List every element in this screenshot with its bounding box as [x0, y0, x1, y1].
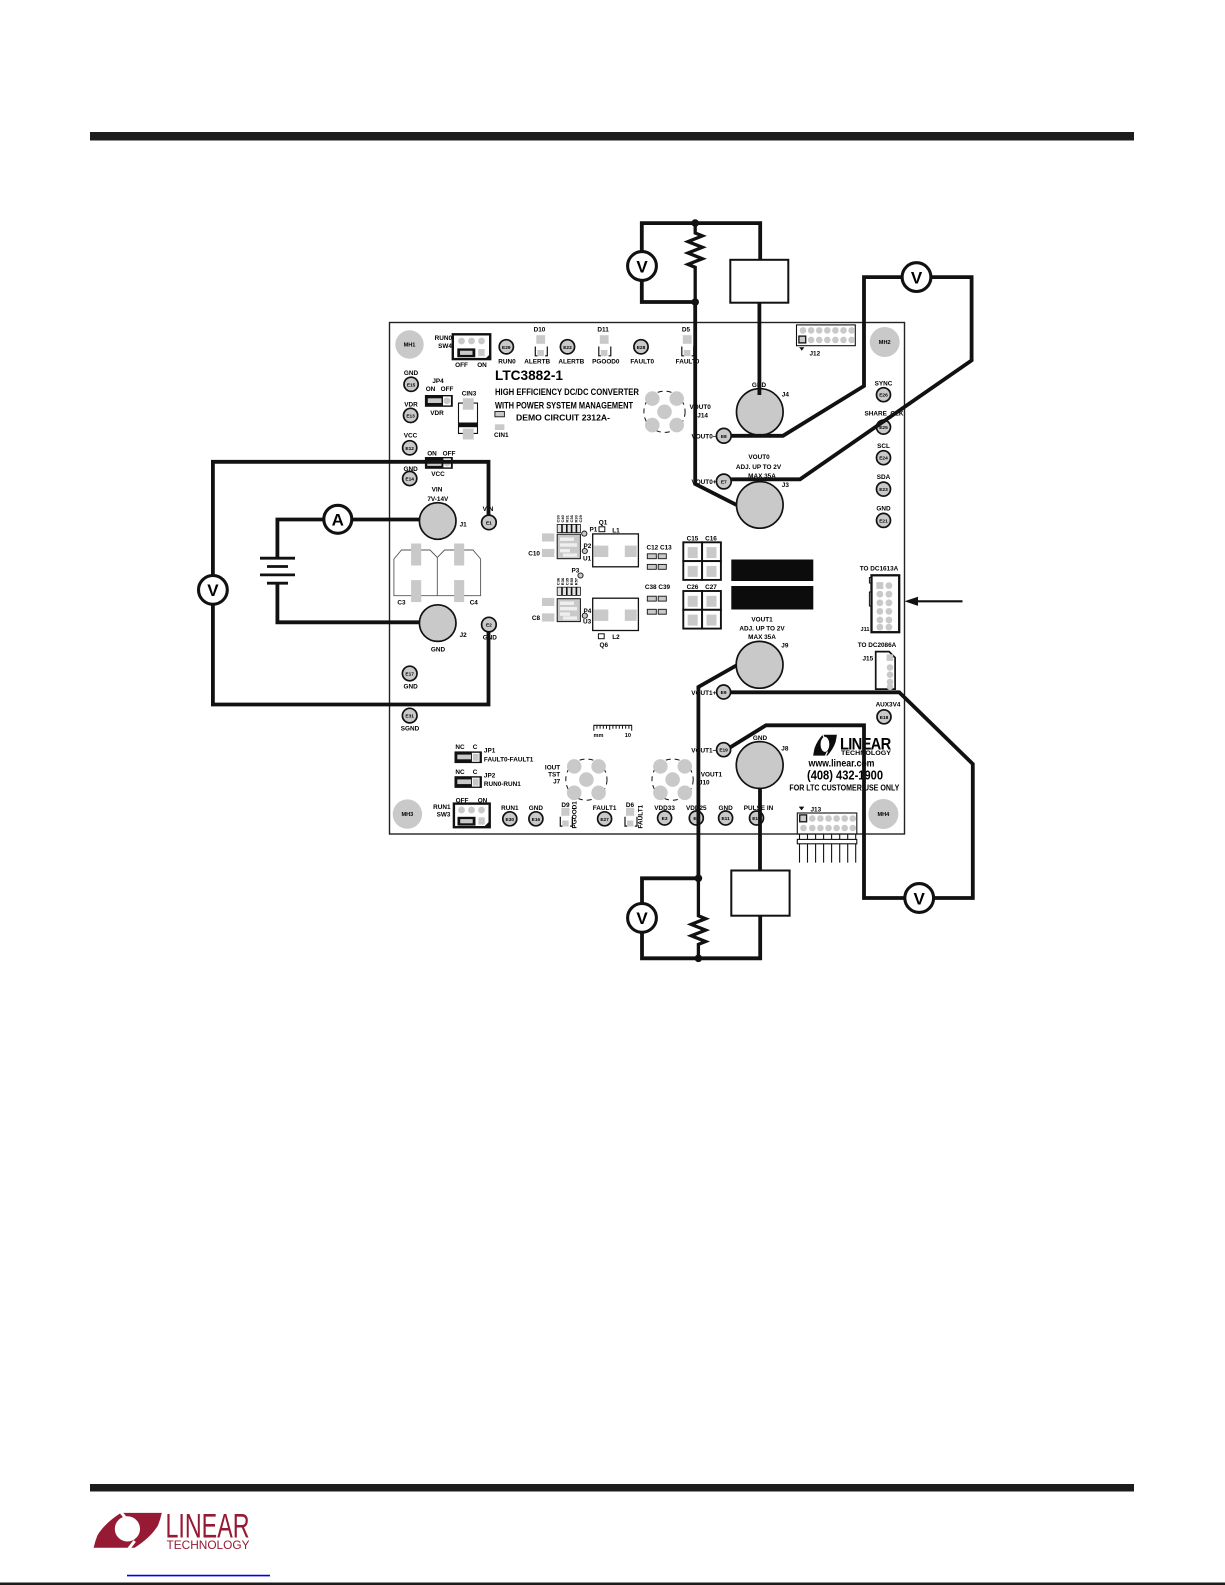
- svg-text:L1: L1: [612, 527, 620, 534]
- turret E27 FAULT1: [593, 805, 617, 826]
- svg-text:V: V: [636, 257, 648, 276]
- wire: E19 VOUT1- to voltmeter V5 left: [730, 725, 905, 898]
- svg-text:MAX 35A: MAX 35A: [748, 634, 776, 641]
- svg-text:ALERTB: ALERTB: [524, 359, 550, 366]
- wire: VOUT1 load bottom rail: [642, 916, 760, 959]
- capacitor CIN1: [494, 412, 509, 440]
- connector J13 through pins: [797, 834, 857, 863]
- mounting hole MH4: [868, 799, 898, 829]
- svg-text:MH4: MH4: [877, 812, 890, 818]
- mounting hole MH1: [395, 330, 423, 358]
- svg-text:DEMO CIRCUIT 2312A-: DEMO CIRCUIT 2312A-: [516, 413, 610, 423]
- svg-text:ON: ON: [427, 450, 437, 457]
- svg-text:ADJ. UP TO 2V: ADJ. UP TO 2V: [736, 464, 782, 471]
- turret E23 SDA: [877, 474, 891, 496]
- op-amp U1 (controller IC): [557, 534, 591, 562]
- svg-text:C15: C15: [687, 535, 699, 542]
- connector J11 TO DC1613A: [860, 566, 900, 633]
- svg-text:VDR: VDR: [430, 410, 444, 417]
- svg-text:C3: C3: [397, 600, 406, 607]
- turret E19 VOUT1-: [691, 743, 730, 757]
- svg-text:J8: J8: [781, 745, 789, 752]
- svg-text:V: V: [207, 581, 219, 600]
- test point P2: [582, 543, 592, 553]
- svg-text:V: V: [911, 268, 923, 287]
- svg-text:E1: E1: [486, 520, 492, 526]
- svg-text:D11: D11: [597, 327, 609, 334]
- svg-text:JP4: JP4: [432, 378, 444, 385]
- svg-text:J4: J4: [782, 391, 790, 398]
- svg-text:C: C: [473, 744, 478, 751]
- turret E3 VDD33: [654, 805, 675, 825]
- wire: resistor R_LOAD0 down to J3 VOUT0+: [695, 302, 736, 505]
- svg-text:VOUT1+: VOUT1+: [691, 690, 716, 697]
- svg-text:FAULT0-FAULT1: FAULT0-FAULT1: [484, 756, 534, 763]
- svg-text:E24: E24: [879, 456, 888, 462]
- svg-text:E3: E3: [662, 816, 668, 822]
- svg-text:SGND: SGND: [401, 725, 420, 732]
- op-amp U3 (controller IC): [557, 599, 591, 626]
- svg-text:E19: E19: [719, 748, 728, 754]
- svg-text:GND: GND: [403, 683, 418, 690]
- svg-text:PGOOD1: PGOOD1: [572, 801, 579, 829]
- svg-text:(408) 432-1900: (408) 432-1900: [807, 768, 883, 783]
- svg-text:GND: GND: [404, 370, 419, 377]
- capacitors C26 C27: [683, 584, 721, 629]
- heatsink bar 1: [731, 560, 813, 582]
- svg-text:FOR LTC CUSTOMER USE ONLY: FOR LTC CUSTOMER USE ONLY: [789, 782, 899, 792]
- svg-text:J15: J15: [863, 656, 874, 663]
- junction dot VOUT0 top: [691, 219, 699, 227]
- svg-text:E21: E21: [879, 518, 888, 524]
- load box LOAD1: [731, 871, 789, 916]
- capacitors C38 C39: [645, 584, 671, 614]
- svg-text:TST: TST: [548, 772, 560, 779]
- svg-text:JP1: JP1: [484, 747, 496, 754]
- svg-text:CIN1: CIN1: [494, 432, 509, 439]
- svg-text:E7: E7: [721, 480, 727, 486]
- svg-text:C12 C13: C12 C13: [647, 545, 673, 552]
- turret E28 FAULT0: [630, 340, 654, 366]
- svg-text:E15: E15: [407, 382, 416, 388]
- svg-text:C27: C27: [705, 584, 717, 591]
- turret E25 SHARE_CLK: [864, 411, 903, 434]
- svg-text:FAULT1: FAULT1: [638, 804, 645, 828]
- turret E29 RUN0: [498, 340, 516, 366]
- wire: battery plus to ammeter to J1: [277, 520, 420, 558]
- svg-text:E13: E13: [406, 413, 415, 419]
- svg-text:ALERTB: ALERTB: [558, 359, 584, 366]
- capacitor C10: [528, 533, 554, 557]
- mounting hole MH3: [393, 799, 422, 828]
- svg-text:ON: ON: [426, 386, 436, 393]
- svg-text:J7: J7: [553, 779, 561, 786]
- voltmeter V5 (VOUT1 sense): [905, 884, 934, 913]
- svg-text:GND: GND: [529, 805, 544, 812]
- svg-text:VOUT0: VOUT0: [748, 454, 770, 461]
- svg-text:MH2: MH2: [879, 340, 891, 346]
- voltmeter V1 (input): [199, 576, 228, 605]
- LED D10 ALERTB: [524, 327, 550, 366]
- svg-text:SW4: SW4: [438, 343, 452, 350]
- svg-text:FAULT1: FAULT1: [593, 805, 617, 812]
- svg-text:C4: C4: [470, 600, 479, 607]
- turret E21 GND: [876, 505, 891, 527]
- wire: LOAD0 bottom to J4 GND: [758, 303, 762, 395]
- turret E14 GND: [403, 466, 418, 486]
- resistor R_LOAD0: [688, 223, 702, 302]
- turret E9 VOUT1+: [691, 685, 730, 699]
- heatsink bar 2: [731, 586, 813, 610]
- svg-text:J9: J9: [781, 643, 789, 650]
- junction dot VOUT1 top: [695, 875, 703, 883]
- turret E17 GND: [402, 666, 418, 690]
- svg-text:C8: C8: [532, 615, 541, 622]
- svg-text:WITH POWER SYSTEM MANAGEMENT: WITH POWER SYSTEM MANAGEMENT: [495, 401, 633, 411]
- svg-text:SDA: SDA: [877, 474, 891, 481]
- turret E8 VOUT0-: [691, 428, 731, 443]
- board LT logo block: [789, 734, 899, 792]
- LED D11 PGOOD0: [592, 327, 620, 366]
- svg-text:C29: C29: [578, 514, 583, 522]
- svg-text:Q6: Q6: [600, 642, 609, 649]
- ammeter A1: [324, 505, 352, 533]
- inductor L2: [593, 598, 639, 641]
- ruler mm scale: [594, 725, 633, 739]
- turret E7 VOUT0+: [691, 474, 731, 489]
- svg-text:E30: E30: [506, 817, 515, 823]
- turret E26 SYNC: [875, 380, 893, 401]
- mounting hole MH2: [870, 327, 900, 357]
- turret E24 SCL: [877, 443, 891, 465]
- transistor Q1: [599, 519, 608, 531]
- switch SW3 RUN1: [433, 797, 490, 827]
- svg-text:AUX3V4: AUX3V4: [876, 702, 901, 709]
- svg-text:C: C: [473, 769, 478, 776]
- svg-text:E23: E23: [879, 487, 888, 493]
- svg-text:J12: J12: [810, 350, 821, 357]
- svg-text:MH1: MH1: [404, 343, 416, 349]
- wire: E8 VOUT0- to voltmeter V3 left: [731, 277, 902, 436]
- jumper JP2 RUN0-RUN1: [455, 769, 522, 788]
- inductor L1: [593, 527, 639, 567]
- svg-text:VCC: VCC: [404, 432, 418, 439]
- svg-text:D6: D6: [626, 802, 635, 809]
- turret E30 RUN1: [501, 805, 519, 826]
- svg-text:D9: D9: [561, 802, 570, 809]
- junction dot VOUT1 bottom: [695, 955, 703, 963]
- svg-text:FAULT0: FAULT0: [630, 359, 654, 366]
- wire: J8 GND down to LOAD1 top: [758, 788, 762, 871]
- jumper JP1 FAULT0-FAULT1: [455, 744, 534, 763]
- svg-text:Q1: Q1: [599, 519, 608, 526]
- connector J13: [797, 807, 857, 834]
- turret E18 AUX3V4: [876, 702, 901, 724]
- svg-text:E9: E9: [721, 690, 727, 696]
- svg-text:L2: L2: [612, 634, 620, 641]
- svg-text:E18: E18: [880, 715, 889, 721]
- svg-text:E22: E22: [563, 345, 572, 351]
- svg-text:R57: R57: [574, 577, 579, 585]
- svg-text:HIGH EFFICIENCY DC/DC CONVERTE: HIGH EFFICIENCY DC/DC CONVERTER: [495, 387, 639, 397]
- turret E12 VCC: [403, 432, 418, 455]
- pad cluster J10 VOUT1: [652, 759, 723, 800]
- svg-text:OFF: OFF: [455, 362, 468, 369]
- resistor row above U1: [556, 514, 584, 532]
- turret E4 VDD25: [686, 805, 707, 825]
- svg-text:D10: D10: [534, 327, 546, 334]
- board outline DC2312A: [390, 323, 905, 835]
- svg-text:V: V: [914, 889, 926, 908]
- resistor R_LOAD1: [691, 878, 705, 958]
- svg-text:E17: E17: [405, 672, 414, 678]
- svg-text:C10: C10: [528, 551, 540, 558]
- turret E31 SGND: [401, 708, 420, 732]
- svg-text:IOUT: IOUT: [545, 764, 560, 771]
- svg-text:C16: C16: [705, 535, 717, 542]
- svg-text:10: 10: [625, 733, 631, 739]
- svg-text:E2: E2: [486, 623, 492, 629]
- transistor Q6: [598, 634, 608, 649]
- svg-text:ON: ON: [477, 362, 487, 369]
- svg-text:E31: E31: [405, 714, 414, 720]
- svg-text:E14: E14: [405, 477, 414, 483]
- svg-text:PGOOD0: PGOOD0: [592, 359, 620, 366]
- footer LINEAR text: [166, 1508, 250, 1552]
- svg-text:RUN0: RUN0: [498, 359, 516, 366]
- capacitors C15 C16: [683, 535, 721, 580]
- BOARD: [390, 323, 963, 863]
- arrow to J11: [905, 597, 963, 606]
- svg-text:TO DC1613A: TO DC1613A: [860, 566, 899, 573]
- svg-text:U1: U1: [583, 556, 592, 563]
- wire: E9 VOUT1+ to voltmeter V5 right: [731, 692, 973, 898]
- svg-text:E16: E16: [532, 817, 541, 823]
- jack J4 GND: [737, 382, 790, 435]
- voltmeter V3 (VOUT0 sense): [902, 263, 931, 292]
- svg-text:VOUT0: VOUT0: [690, 404, 712, 411]
- jack J3 VOUT0+: [736, 454, 789, 528]
- svg-text:VCC: VCC: [431, 471, 445, 478]
- svg-text:NC: NC: [455, 744, 465, 751]
- LED D6 FAULT1: [625, 802, 645, 829]
- connector J15 TO DC2086A: [858, 642, 897, 690]
- switch SW4 RUN0: [435, 334, 491, 369]
- svg-text:JP2: JP2: [484, 772, 496, 779]
- battery V_IN source: [260, 558, 295, 583]
- jack J1 VIN: [419, 487, 467, 540]
- jack J9 VOUT1+: [736, 617, 789, 689]
- svg-text:RUN1: RUN1: [501, 805, 519, 812]
- svg-text:U3: U3: [583, 619, 592, 626]
- svg-text:A: A: [332, 511, 344, 530]
- EXTERNAL-CIRCUIT: [199, 219, 973, 962]
- svg-text:E8: E8: [721, 434, 727, 440]
- wire: voltmeter V1 bottom to E2 GND: [213, 605, 489, 705]
- pad cluster J14 VOUT0: [644, 391, 711, 432]
- svg-text:CIN3: CIN3: [462, 390, 477, 397]
- svg-text:GND: GND: [876, 505, 891, 512]
- svg-text:OFF: OFF: [443, 450, 456, 457]
- svg-text:TECHNOLOGY: TECHNOLOGY: [841, 751, 891, 757]
- svg-text:VOUT1: VOUT1: [701, 772, 723, 779]
- svg-text:J11: J11: [861, 627, 870, 633]
- test point P1: [582, 527, 598, 537]
- LED D5 FAULT0: [676, 327, 700, 366]
- voltmeter V2 (VOUT0 load): [628, 252, 657, 281]
- pad cluster J7 IOUT TST: [545, 759, 607, 800]
- load box LOAD0: [730, 260, 788, 303]
- svg-text:SYNC: SYNC: [875, 380, 893, 387]
- svg-text:P1: P1: [590, 527, 598, 534]
- svg-text:MH3: MH3: [401, 812, 413, 818]
- voltmeter V4 (VOUT1 load): [628, 904, 657, 933]
- wire: VOUT0 load top rail: [642, 223, 760, 260]
- wire: J9 VOUT1+ down to load resistor: [698, 666, 736, 879]
- svg-text:V: V: [636, 909, 648, 928]
- turret E16 GND: [529, 805, 544, 826]
- svg-text:RUN0: RUN0: [435, 335, 453, 342]
- wire: VOUT1 load top rail: [642, 878, 698, 903]
- svg-text:SW3: SW3: [437, 812, 451, 819]
- svg-text:VOUT1: VOUT1: [751, 617, 773, 624]
- turret E1 VIN: [482, 506, 497, 530]
- svg-text:E11: E11: [721, 816, 730, 822]
- capacitors C3 C4 outline: [394, 544, 481, 607]
- svg-text:VIN: VIN: [432, 487, 443, 494]
- svg-text:LTC3882-1: LTC3882-1: [495, 368, 563, 383]
- svg-text:GND: GND: [431, 647, 446, 654]
- svg-text:TECHNOLOGY: TECHNOLOGY: [167, 1538, 250, 1552]
- turret E10 PULSE IN: [744, 805, 774, 825]
- jack J8 GND: [736, 735, 789, 788]
- svg-text:J14: J14: [697, 412, 708, 419]
- capacitors C12 C13: [647, 545, 673, 570]
- junction dot VOUT0 bottom: [691, 298, 699, 306]
- svg-text:mm: mm: [594, 733, 604, 739]
- svg-text:E26: E26: [879, 393, 888, 399]
- svg-text:D5: D5: [682, 327, 691, 334]
- turret E15 GND: [404, 370, 419, 392]
- svg-text:J1: J1: [460, 522, 468, 529]
- svg-text:7V-14V: 7V-14V: [427, 496, 449, 503]
- Linear Technology footer logo mark: [94, 1512, 162, 1549]
- svg-text:ADJ. UP TO 2V: ADJ. UP TO 2V: [739, 626, 785, 633]
- svg-text:C38 C39: C38 C39: [645, 584, 671, 591]
- svg-text:E12: E12: [405, 446, 414, 452]
- svg-text:E27: E27: [600, 817, 609, 823]
- svg-text:J2: J2: [460, 632, 468, 639]
- svg-text:RUN1: RUN1: [433, 804, 451, 811]
- jumper JP4 VDR: [425, 378, 454, 417]
- jumper JP3 VCC: [425, 450, 456, 477]
- svg-text:C26: C26: [687, 584, 699, 591]
- wire: battery minus to J2: [277, 584, 420, 622]
- test point P3 label: [572, 567, 584, 578]
- resistor row above U3: [556, 577, 581, 595]
- wire: voltmeter V3 right to E7 VOUT0+: [731, 277, 971, 479]
- svg-text:E28: E28: [637, 345, 646, 351]
- FOOTER: [94, 1508, 250, 1552]
- wire: voltmeter V1 top to E1 VIN: [213, 462, 489, 576]
- svg-text:E29: E29: [502, 345, 511, 351]
- silkscreen title LTC3882-1: [495, 368, 639, 423]
- turret E2 GND: [482, 617, 498, 641]
- LED D9 PGOOD1: [560, 801, 578, 829]
- test point P4: [582, 608, 592, 618]
- svg-text:OFF: OFF: [441, 386, 454, 393]
- svg-text:RUN0-RUN1: RUN0-RUN1: [484, 781, 521, 788]
- svg-text:TO DC2086A: TO DC2086A: [858, 642, 897, 649]
- wire: VOUT0 load bottom rail: [642, 281, 695, 303]
- svg-text:E25: E25: [879, 425, 888, 431]
- svg-text:SCL: SCL: [877, 443, 890, 450]
- svg-text:J3: J3: [782, 482, 790, 489]
- svg-text:VOUT1−: VOUT1−: [691, 748, 716, 755]
- turret E13 VDR: [404, 401, 419, 422]
- svg-text:VDR: VDR: [404, 401, 418, 408]
- connector J12: [797, 325, 856, 358]
- capacitor C8: [532, 598, 554, 622]
- svg-text:J10: J10: [699, 780, 710, 787]
- turret E22 ALERTB: [558, 340, 584, 366]
- svg-text:NC: NC: [455, 769, 465, 776]
- jack J2 GND: [419, 605, 467, 654]
- capacitor CIN3: [459, 390, 478, 439]
- turret E11 GND: [718, 805, 733, 825]
